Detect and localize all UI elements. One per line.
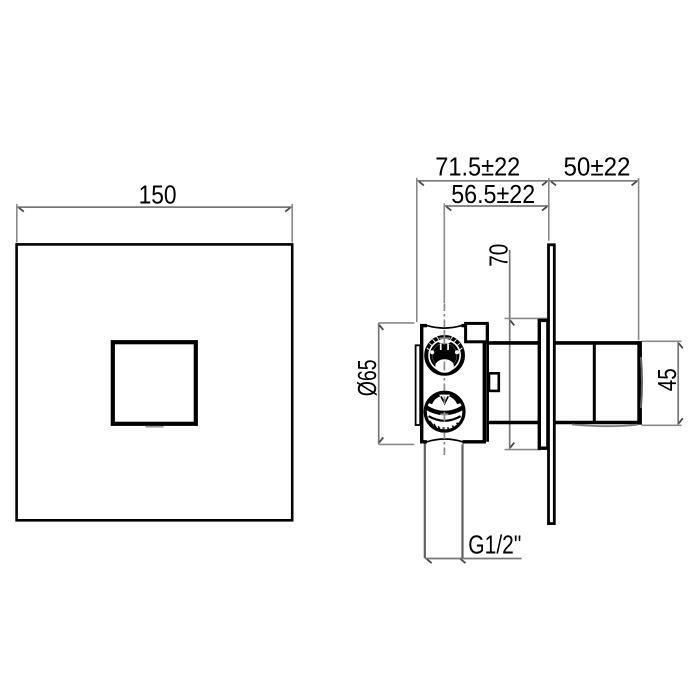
dim 56.5 tick left [446,207,451,211]
svg-text:G1/2": G1/2" [468,532,521,560]
centerline overlay lower dash [443,412,445,422]
lower band [429,416,461,421]
dim 71.5 left extension [416,178,418,322]
center tick upper [439,337,450,339]
svg-text:71.5±22: 71.5±22 [435,154,520,182]
inlet pipe left line [424,442,426,559]
dim 70 bottom extension [505,449,542,451]
dim 50 line [549,180,639,182]
neck top line [487,341,639,345]
top inner band [430,394,459,404]
dim 45 top extension [642,340,682,342]
dim 45 bottom extension [642,424,682,426]
front handle square [113,342,196,424]
pipe end edge [637,341,642,425]
dim 56.5 tick right [542,207,547,211]
dim 56.5 left extension [443,203,445,303]
centerline overlay below lower band [443,427,445,433]
dim 45 tick bottom [679,418,683,423]
dim 150 tick right [285,208,290,212]
dim 70 top extension [505,317,549,319]
centerline [443,304,445,459]
handle inner art [432,343,456,367]
dim 70 tick top [510,320,514,325]
inlet pipe right line [461,442,463,559]
dim dia65 top extension [379,322,415,324]
body top arc [427,326,462,329]
pipe end round arc [641,357,642,408]
body bottom edge gap [427,439,463,445]
middle band [426,407,464,413]
upper cartridge circle [424,335,466,377]
dim 45 line [677,341,679,425]
dim 50 tick left [551,181,556,185]
body left strip [416,345,421,425]
dim 70 tick bottom [510,443,514,448]
pipe divider [593,343,596,422]
svg-text:150: 150 [139,181,177,209]
neck bottom line [487,421,639,425]
cartridge tab top right [466,323,488,341]
lower diverter circle [424,391,466,433]
wall plate [549,245,555,524]
body top edge gap [427,323,462,329]
body right outer edge [486,324,489,442]
dim 70 line [509,250,511,450]
front plate outline [17,244,293,520]
body bottom arc [427,439,463,442]
white V notch [439,395,450,406]
dim dia65 tick bottom [379,437,383,442]
mounting sleeve [539,320,548,448]
dim 71.5 tick left [419,181,424,185]
dim 150 right extension [291,204,293,243]
svg-text:56.5±22: 56.5±22 [451,181,535,209]
pipe bottom shadow arc [572,425,638,427]
bottom hatch [430,421,460,432]
dim 150 line [17,206,292,208]
dim 56.5 line [444,205,549,207]
dim 150 left extension [16,204,18,243]
G1/2 tick left [427,559,432,563]
centerline overlay upper [443,332,445,345]
centerline overlay lower circle [443,397,445,407]
G1/2 tick mid [461,559,466,563]
dim 50 right extension [638,178,640,340]
dim dia65 line [378,323,380,445]
svg-text:45: 45 [654,368,682,391]
knurl marks [427,336,463,350]
dim 71.5 line [417,180,549,182]
dim 50 tick right [632,181,637,185]
center tick lower [440,413,448,415]
dim 150 tick left [19,208,24,212]
flange extension line [548,178,550,241]
svg-text:50±22: 50±22 [564,154,631,182]
svg-text:70: 70 [485,244,513,267]
dim dia65 tick top [379,325,383,330]
handle shadow line [146,426,164,428]
valve body outline [422,326,485,442]
G1/2 leader line [425,558,522,560]
dim 45 tick top [679,343,683,348]
black V mark [441,396,448,403]
dim 71.5 tick right [542,181,547,185]
dim dia65 bottom extension [379,443,415,445]
svg-text:Ø65: Ø65 [354,359,382,396]
centerline overlay upper circle oval dash [443,362,445,371]
outlet tab on body right [489,373,499,391]
